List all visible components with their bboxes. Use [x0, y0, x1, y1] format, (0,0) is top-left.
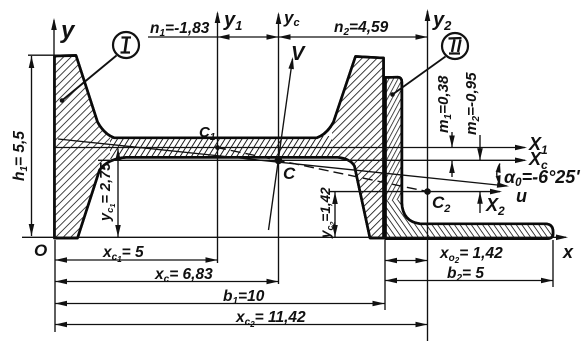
label xo2: [439, 245, 503, 265]
section II corner and horizontal leg hatching: [384, 200, 555, 240]
section I left flange hatching: [54, 54, 110, 239]
label Xc: [528, 149, 548, 172]
dimension xo2: [385, 258, 428, 264]
dimension n1 and n2 line: [148, 34, 428, 40]
extension line at x=55 below beam: [54, 240, 56, 332]
label xc: [154, 266, 213, 285]
label yc2: [318, 187, 337, 239]
label y1: [223, 9, 242, 33]
principal axis u: [58, 139, 509, 188]
extension line at x=385 below sections: [384, 240, 386, 310]
dimension h1: [28, 55, 57, 236]
axis y1: [215, 11, 221, 263]
svg-text:xc= 6,83: xc= 6,83: [154, 266, 213, 285]
dimension xc2: [55, 322, 428, 328]
label u: [516, 186, 527, 206]
label b1: [223, 288, 265, 307]
section II outline restroke: [386, 77, 554, 238]
label yc1: [98, 162, 117, 222]
label m2: [463, 72, 482, 135]
axis X2: [330, 189, 502, 195]
centroid line C1-C2 dashed: [216, 147, 428, 191]
callout circle I: [113, 32, 139, 58]
angle alpha0 arc: [496, 164, 501, 185]
axis X1: [55, 145, 527, 151]
dimension m1: [449, 132, 455, 177]
svg-text:O: O: [34, 241, 47, 260]
centroid C: [275, 157, 283, 165]
svg-text:b2= 5: b2= 5: [447, 265, 484, 284]
axis yc: [276, 12, 282, 284]
svg-text:m2=-0,95: m2=-0,95: [463, 72, 482, 135]
label y2: [432, 9, 452, 33]
axis x: [22, 235, 568, 241]
label b2: [447, 265, 484, 284]
dimension xc1: [55, 257, 218, 263]
axis y2: [425, 9, 431, 341]
svg-text:m1=0,38: m1=0,38: [435, 75, 454, 133]
label h1: [11, 131, 30, 181]
angle section II outline: [386, 77, 554, 238]
label m1: [435, 75, 454, 133]
centroid C2: [424, 188, 431, 195]
svg-text:u: u: [516, 186, 527, 206]
centroid C1: [215, 145, 220, 150]
label n2: [334, 19, 389, 38]
svg-text:h1= 5,5: h1= 5,5: [11, 131, 30, 181]
principal axis V: [269, 57, 294, 230]
label X1: [528, 134, 548, 157]
section I outline restroke: [55, 56, 384, 239]
label X2: [485, 195, 505, 218]
dimension yc1: [115, 149, 121, 238]
label n1: [150, 20, 210, 39]
label y (axis y): [60, 17, 76, 44]
svg-text:n1=-1,83: n1=-1,83: [150, 20, 210, 39]
label yc: [283, 8, 300, 29]
label X (axis x): [562, 242, 574, 262]
label C: [283, 164, 296, 183]
svg-text:C: C: [283, 164, 296, 183]
dimension yc2: [332, 192, 338, 237]
section I right flange hatching: [332, 54, 385, 239]
section II vertical leg hatching: [384, 76, 403, 203]
label V: [291, 43, 306, 65]
section I web hatching: [110, 136, 332, 159]
dimension b2: [385, 278, 553, 284]
svg-text:b1=10: b1=10: [223, 288, 265, 307]
leader line I: [60, 56, 117, 103]
I-beam section I outline: [55, 56, 384, 239]
label C2: [432, 193, 450, 215]
leader line II: [390, 57, 445, 97]
label C1: [199, 124, 216, 143]
axis Xc: [98, 158, 527, 164]
dimension b1: [55, 301, 385, 307]
axis y: [51, 18, 57, 238]
svg-text:n2=4,59: n2=4,59: [334, 19, 389, 38]
label xc2: [235, 309, 306, 329]
label xc1: [102, 244, 144, 264]
label O origin: [34, 241, 47, 260]
svg-text:V: V: [291, 43, 306, 65]
label alpha0: [504, 167, 580, 189]
extension line at x=553 below angle leg: [552, 240, 554, 287]
svg-text:y: y: [60, 17, 76, 44]
dimension xc: [55, 279, 279, 285]
dimension m2: [477, 135, 483, 213]
svg-text:x: x: [562, 242, 574, 262]
callout circle II: [442, 33, 468, 59]
